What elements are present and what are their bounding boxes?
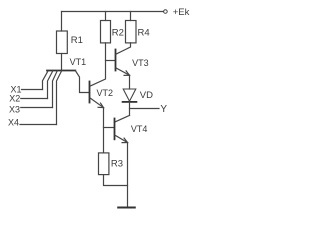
svg-text:R3: R3 [111,159,123,170]
wire VT4 emitter to ground [127,143,129,208]
wire input X3 [21,107,53,109]
VT3 emitter lead with arrow [116,68,130,75]
resistor R2 [101,21,111,43]
svg-text:+Ek: +Ek [173,7,190,18]
terminal +Ek circle [164,10,168,14]
node VT3 base branch [106,60,115,62]
VT4 collector lead [115,115,130,122]
VT1 emitter 3 lead [53,71,58,108]
wire output Y [130,108,160,110]
VT1 emitter 2 lead [48,71,53,99]
svg-text:R4: R4 [138,27,150,38]
svg-text:R1: R1 [71,35,83,46]
wire VT2 emitter down to R3 [103,108,105,153]
wire VT3 emitter to VD [129,75,131,89]
ground [118,207,135,209]
VT1 collector lead [75,71,88,93]
wire input X1 [22,89,43,91]
wire rail to R4 [130,12,132,21]
svg-text:X4: X4 [8,117,19,127]
diode VD triangle [123,89,136,101]
svg-text:VT3: VT3 [132,58,149,68]
svg-text:VT2: VT2 [97,88,114,98]
svg-text:X2: X2 [9,94,20,104]
diode VD cathode bar [123,101,137,103]
resistor R4 [126,21,137,43]
wire R3 bottom to emitter line [104,175,128,186]
svg-text:R2: R2 [112,27,124,38]
resistor R1 [57,31,68,54]
VT4 emitter lead with arrow [115,135,128,142]
wire top supply rail [62,11,164,13]
wire input X4 [20,124,57,126]
svg-text:VD: VD [140,90,153,101]
VT1 emitter 4 lead [57,71,62,125]
wire R1 bottom to VT1 base bar [61,54,63,71]
node VT4 base branch [104,127,114,129]
transistor VT2 base bar [89,82,91,103]
wire input X2 [21,98,48,100]
svg-text:X3: X3 [9,105,20,115]
transistor VT1 multi-emitter body bar [47,70,75,72]
VT2 emitter lead with arrow [90,98,104,108]
VT1 emitter 1 lead [43,71,49,90]
svg-text:VT4: VT4 [131,124,148,134]
svg-text:VT1: VT1 [70,57,87,67]
wire rail to R1 [61,12,63,32]
resistor R3 [99,153,109,175]
svg-text:Y: Y [160,104,167,115]
wire rail to R2 [105,12,107,21]
VT3 collector lead to R4 [116,43,131,54]
VT2 collector lead [90,43,106,86]
transistor VT4 base bar [114,119,116,140]
transistor VT3 base bar [115,50,117,71]
wire VD to output node [129,102,131,116]
